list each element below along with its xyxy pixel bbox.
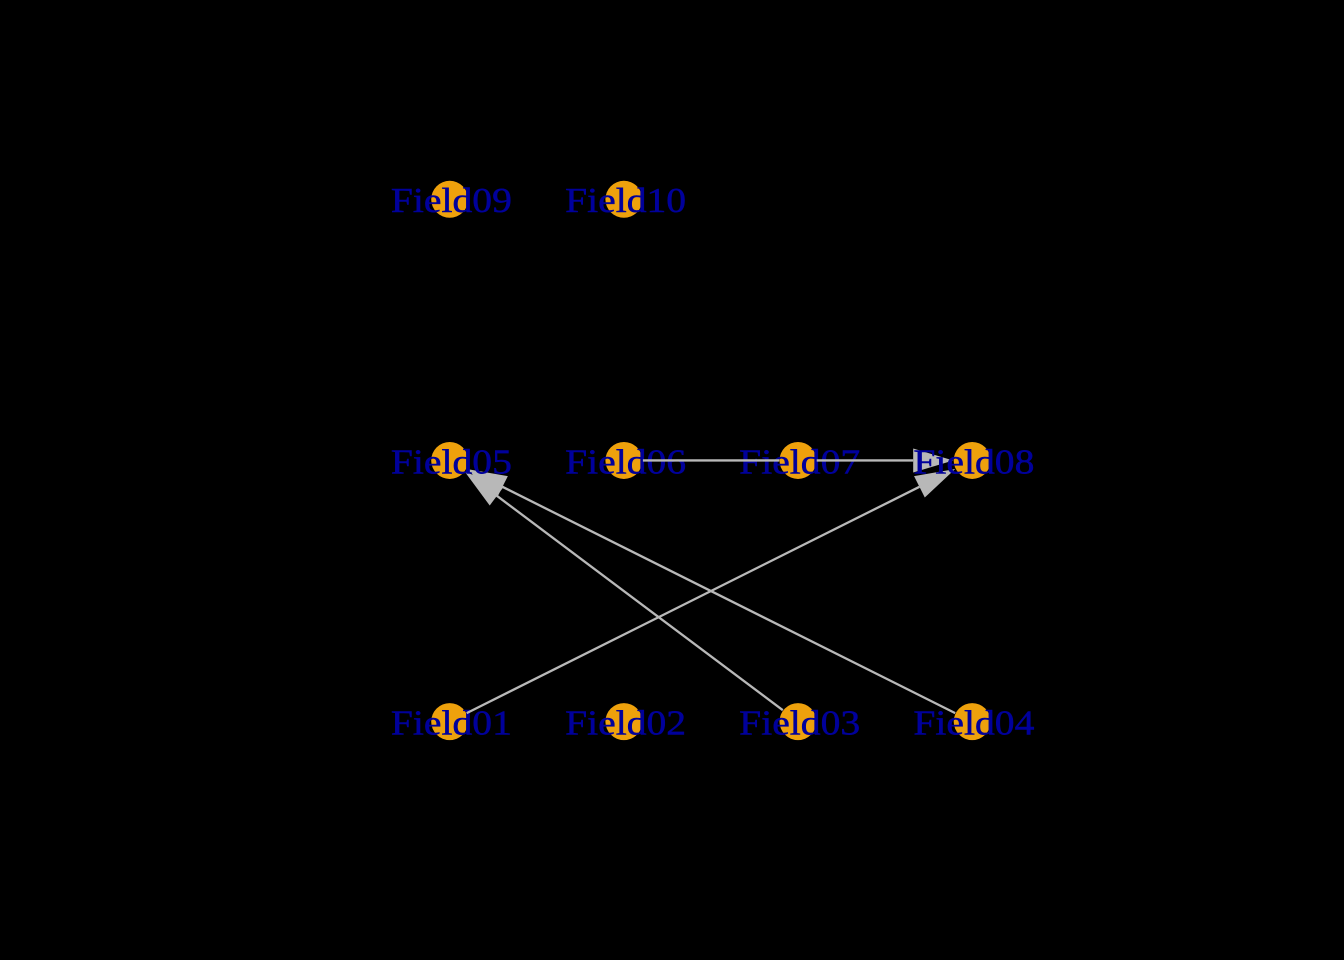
node Field08 vertex circle	[954, 442, 991, 479]
arrowhead of edge Field06 to Field08	[913, 448, 953, 472]
label Field02	[565, 704, 686, 743]
wire edge Field06 to Field08, segment right of Field07	[817, 459, 914, 461]
node Field04 vertex circle	[954, 703, 991, 740]
label Field08	[913, 442, 1034, 481]
svg-text:Field03: Field03	[739, 704, 860, 743]
svg-text:Field05: Field05	[391, 442, 512, 481]
label Field10	[565, 181, 686, 220]
node Field07 vertex circle	[780, 442, 817, 479]
label Field01	[391, 704, 512, 743]
svg-text:Field09: Field09	[391, 181, 512, 220]
node Field01 vertex circle	[431, 703, 468, 740]
svg-text:Field02: Field02	[565, 704, 686, 743]
wire edge Field03 to Field05	[497, 496, 783, 710]
svg-text:Field10: Field10	[565, 181, 686, 220]
label Field09	[391, 181, 512, 220]
node Field10 vertex circle	[605, 181, 642, 218]
node Field05 vertex circle	[431, 442, 468, 479]
label Field07	[739, 442, 860, 481]
label Field03	[739, 704, 860, 743]
arrowhead of edge Field03 to Field05	[465, 472, 504, 506]
svg-text:Field06: Field06	[565, 442, 686, 481]
node Field03 vertex circle	[780, 703, 817, 740]
node Field09 vertex circle	[431, 181, 468, 218]
node Field06 vertex circle	[605, 442, 642, 479]
arrowhead of edge Field04 to Field05	[467, 469, 508, 498]
svg-text:Field08: Field08	[913, 442, 1034, 481]
arrowhead of edge Field01 to Field08	[914, 469, 955, 498]
node Field02 vertex circle	[605, 703, 642, 740]
wire edge Field04 to Field05	[502, 487, 955, 713]
label Field06	[565, 442, 686, 481]
label Field05	[391, 442, 512, 481]
label Field04	[913, 704, 1034, 743]
wire edge Field01 to Field08	[467, 487, 920, 713]
svg-text:Field04: Field04	[913, 704, 1034, 743]
svg-text:Field07: Field07	[739, 442, 860, 481]
wire edge Field06 to Field08, segment left of Field07	[643, 459, 779, 461]
svg-text:Field01: Field01	[391, 704, 512, 743]
